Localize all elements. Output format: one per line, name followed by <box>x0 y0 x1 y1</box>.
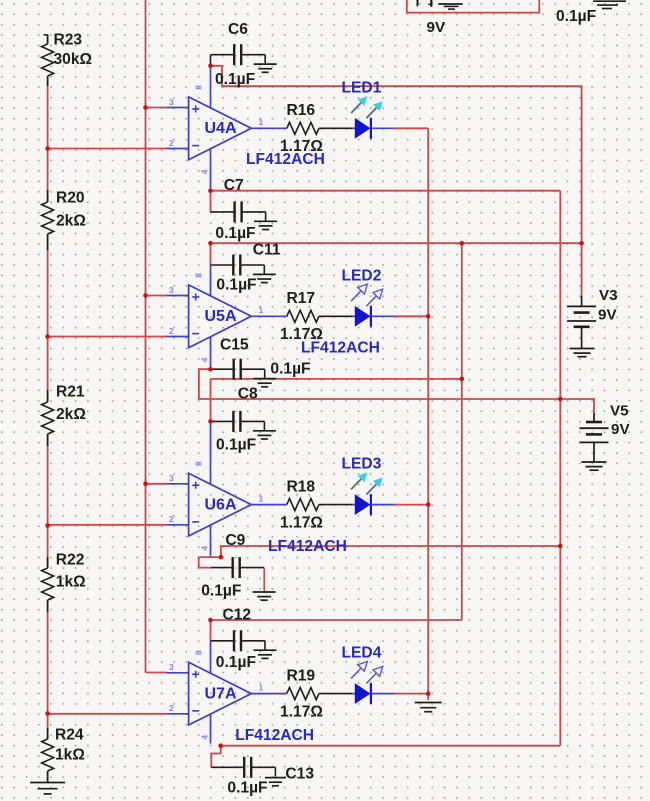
svg-text:9V: 9V <box>598 307 617 324</box>
svg-text:R23: R23 <box>54 32 83 49</box>
svg-text:LF412ACH: LF412ACH <box>268 538 347 555</box>
svg-text:C9: C9 <box>225 532 245 549</box>
svg-text:8: 8 <box>194 273 204 278</box>
svg-text:1kΩ: 1kΩ <box>56 574 86 591</box>
svg-text:2: 2 <box>169 703 174 713</box>
svg-text:2: 2 <box>169 326 174 336</box>
svg-text:V3: V3 <box>599 287 618 304</box>
svg-text:1kΩ: 1kΩ <box>55 747 85 764</box>
svg-text:1.17Ω: 1.17Ω <box>280 326 323 343</box>
svg-text:1.17Ω: 1.17Ω <box>280 138 323 155</box>
svg-text:C15: C15 <box>220 337 249 354</box>
svg-text:0.1µF: 0.1µF <box>216 277 256 294</box>
svg-text:4: 4 <box>200 357 210 362</box>
svg-text:U6A: U6A <box>205 496 237 513</box>
svg-text:2kΩ: 2kΩ <box>56 213 86 230</box>
svg-text:R16: R16 <box>287 102 316 119</box>
svg-text:3: 3 <box>169 473 174 483</box>
svg-text:C7: C7 <box>224 177 244 194</box>
svg-text:R22: R22 <box>56 552 85 569</box>
svg-text:3: 3 <box>169 662 174 672</box>
svg-text:LF412ACH: LF412ACH <box>235 727 314 744</box>
svg-text:LED2: LED2 <box>342 267 382 284</box>
svg-text:V5: V5 <box>610 403 629 420</box>
svg-text:8: 8 <box>194 650 204 655</box>
svg-text:4: 4 <box>200 169 210 174</box>
svg-text:C11: C11 <box>253 242 281 259</box>
svg-text:R18: R18 <box>287 478 316 495</box>
svg-text:LED4: LED4 <box>342 645 382 662</box>
svg-text:C12: C12 <box>223 607 252 624</box>
svg-text:C13: C13 <box>285 766 314 783</box>
svg-text:0.1µF: 0.1µF <box>227 780 267 797</box>
svg-text:R19: R19 <box>287 667 316 684</box>
svg-text:U4A: U4A <box>205 120 237 137</box>
svg-text:2: 2 <box>169 514 174 524</box>
svg-text:U5A: U5A <box>205 308 237 325</box>
svg-text:0.1µF: 0.1µF <box>201 583 241 600</box>
svg-text:R17: R17 <box>287 290 316 307</box>
svg-text:2kΩ: 2kΩ <box>56 406 86 423</box>
svg-text:8: 8 <box>194 461 204 466</box>
svg-text:1.17Ω: 1.17Ω <box>280 703 323 720</box>
svg-text:R21: R21 <box>56 384 85 401</box>
svg-text:LED3: LED3 <box>342 456 382 473</box>
svg-text:1: 1 <box>259 117 264 127</box>
svg-text:1: 1 <box>259 682 264 692</box>
svg-text:C6: C6 <box>228 21 248 38</box>
svg-text:LED1: LED1 <box>342 79 382 96</box>
svg-text:3: 3 <box>169 97 174 107</box>
svg-text:R24: R24 <box>55 727 84 744</box>
svg-text:0.1µF: 0.1µF <box>216 654 256 671</box>
svg-text:1.17Ω: 1.17Ω <box>280 514 323 531</box>
svg-text:9V: 9V <box>611 421 630 438</box>
svg-text:9V: 9V <box>427 19 446 36</box>
svg-text:4: 4 <box>200 546 210 551</box>
svg-text:0.1µF: 0.1µF <box>270 361 310 378</box>
svg-text:30kΩ: 30kΩ <box>54 51 93 68</box>
svg-text:R20: R20 <box>56 190 85 207</box>
svg-text:4: 4 <box>200 735 210 740</box>
svg-text:C8: C8 <box>238 386 258 403</box>
svg-text:0.1µF: 0.1µF <box>215 225 255 242</box>
svg-text:1: 1 <box>259 493 264 503</box>
svg-text:U7A: U7A <box>205 685 237 702</box>
svg-text:3: 3 <box>169 285 174 295</box>
svg-text:0.1µF: 0.1µF <box>556 8 596 25</box>
svg-text:0.1µF: 0.1µF <box>216 437 256 454</box>
svg-text:0.1µF: 0.1µF <box>215 71 255 88</box>
svg-text:8: 8 <box>194 85 204 90</box>
svg-text:2: 2 <box>169 138 174 148</box>
svg-text:1: 1 <box>259 305 264 315</box>
